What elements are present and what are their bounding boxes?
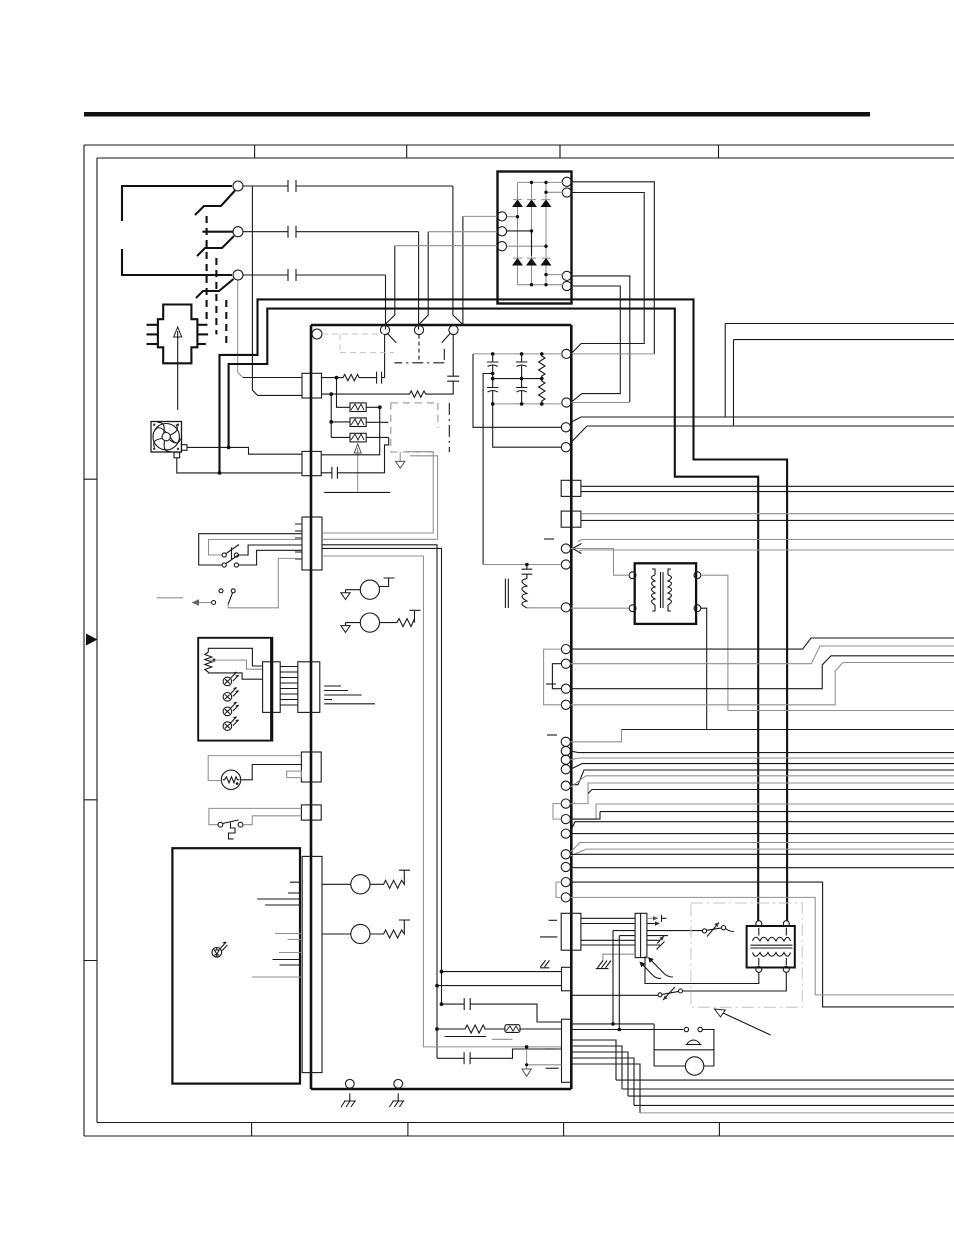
line y752 xyxy=(571,751,954,753)
bridge feed wire bottom xyxy=(395,245,498,247)
light dashed link xyxy=(322,334,394,353)
PCB pin grp1 a xyxy=(561,645,570,654)
T2 core xyxy=(751,945,793,948)
relay output pair to B2 xyxy=(322,452,438,540)
thermal switch feed xyxy=(647,931,702,936)
bridge diodes top row xyxy=(513,200,551,206)
fan wire 2 xyxy=(177,458,302,473)
EMI cap CY2a xyxy=(516,354,527,379)
EMI cap bank bottom rail xyxy=(493,403,562,405)
harness connector C1 xyxy=(561,913,581,950)
line y811 xyxy=(571,812,954,820)
plug pin R1 xyxy=(197,324,207,326)
plug actuation arrow xyxy=(177,331,179,410)
chassis ground GND1 xyxy=(399,452,401,461)
door switch plunger xyxy=(229,823,236,839)
C1 stub a xyxy=(549,919,557,921)
sense line down xyxy=(578,550,954,552)
bridge diode column rails xyxy=(507,182,564,284)
relay unit dash-dot edge xyxy=(448,403,450,452)
ground comb xyxy=(324,686,361,700)
door switch wire top xyxy=(209,808,302,824)
switch blade S3 xyxy=(196,279,234,298)
main PCB board outline xyxy=(311,325,571,1089)
capacitor CX3 on line E xyxy=(243,269,386,281)
TB1 pair lines xyxy=(581,486,954,491)
line y882 to 1006 xyxy=(571,882,954,1007)
line y646 xyxy=(571,646,954,664)
X-capacitor C2 xyxy=(447,335,459,382)
title rule xyxy=(84,112,870,117)
annotation arrow xyxy=(722,1013,771,1036)
selector switch loop inner xyxy=(209,540,302,556)
R3 feed xyxy=(322,883,351,885)
line y867 xyxy=(571,866,954,869)
PTC resistor RT3 xyxy=(350,433,366,442)
note line 1 xyxy=(445,1036,487,1038)
pole1 return xyxy=(238,545,301,555)
ground triangle G3 xyxy=(522,1069,531,1076)
line y638 xyxy=(571,638,954,649)
switch pole2 contacts xyxy=(222,563,226,567)
lamp4 xyxy=(223,717,239,731)
mid-rail tap to L pin xyxy=(483,374,493,565)
R3 resistor and T-bar xyxy=(370,870,410,888)
bridge rectifier block outline xyxy=(498,172,572,304)
ground symbol hatch 1 xyxy=(341,1093,356,1107)
line y758 xyxy=(571,758,954,760)
switch linkage dashed rod 3 xyxy=(225,300,227,344)
thermal protector TP1 xyxy=(679,989,683,993)
M2 ground symbol xyxy=(341,626,350,633)
pole2 return xyxy=(238,550,301,565)
fan terminal 1 xyxy=(181,445,187,451)
TS1 tail xyxy=(726,929,735,932)
plug pin R3 xyxy=(197,343,205,345)
PTC resistor RT2 xyxy=(350,418,366,427)
T2 secondary return A xyxy=(645,956,759,983)
R4 resistor and T-bar xyxy=(370,920,410,938)
pin label stub c xyxy=(547,734,557,736)
pump loop xyxy=(654,1050,714,1066)
line y662 xyxy=(571,663,954,705)
harness connector C2 xyxy=(635,913,647,957)
inside bracket gray xyxy=(544,649,562,705)
AC terminal N xyxy=(233,227,243,237)
relay actuation arrow xyxy=(357,448,359,491)
thermal fuse F1 xyxy=(505,1025,520,1033)
line y804 xyxy=(571,804,954,819)
bridge feed wire top xyxy=(463,215,498,217)
heater wire top xyxy=(208,756,301,781)
M1 ground lead xyxy=(346,590,361,593)
M2 ground lead xyxy=(346,623,361,626)
M1 ground symbol xyxy=(341,593,350,600)
capacitor CX2 on line N xyxy=(243,226,419,238)
pin 803 xyxy=(561,799,570,808)
fan blades xyxy=(154,422,181,451)
PCB pin L1 xyxy=(561,423,570,432)
bridge output pin -1 xyxy=(562,271,571,280)
coil return wire xyxy=(324,491,390,493)
lamp3 xyxy=(223,702,239,716)
display unit box xyxy=(172,848,300,1083)
T1 right bottom wire xyxy=(701,608,707,729)
PCB pin sense xyxy=(561,544,570,553)
square terminal TB2 xyxy=(561,511,581,527)
T1 left bottom wire xyxy=(571,607,630,609)
door switch blade xyxy=(223,820,239,824)
pole blades xyxy=(226,545,239,564)
pin2 contact dash xyxy=(418,335,420,363)
frame zone ticks left xyxy=(84,479,97,960)
ground stem G3 xyxy=(526,1047,528,1069)
resonant choke L1 xyxy=(505,579,527,608)
plug-in arrows xyxy=(641,959,665,976)
bundle line 2 xyxy=(622,1088,954,1090)
mode switch arrow xyxy=(195,602,211,604)
PCB pin T1 return xyxy=(561,603,570,612)
bridge output pin +1 xyxy=(562,177,571,186)
connector A1 xyxy=(302,373,322,398)
line y783 xyxy=(571,783,954,804)
line y763 xyxy=(571,764,954,770)
connector A2 xyxy=(302,451,321,475)
mode switch blade xyxy=(228,593,232,604)
TB2 pair lines xyxy=(581,513,954,515)
T1 right top wire to line 710 xyxy=(701,575,954,710)
pin3 contact diagonal xyxy=(442,333,451,343)
fan wire 1 xyxy=(187,447,302,454)
C2 arrow out 2 xyxy=(647,923,657,925)
frame center arrow left xyxy=(86,634,98,646)
ground symbol hatch 2 xyxy=(389,1093,404,1107)
line y775 xyxy=(571,776,954,787)
mode switch output xyxy=(228,558,301,607)
pin label stub b xyxy=(546,683,556,685)
thermostat loop xyxy=(654,1024,714,1050)
transformer T2 box xyxy=(747,926,795,968)
EMI cap CY1b xyxy=(487,379,498,404)
EMI cap CY2b xyxy=(516,379,527,404)
bridge output pin -2 xyxy=(562,281,571,290)
C2 ground wire xyxy=(603,954,635,961)
pin 867 xyxy=(561,862,570,871)
connector B3R xyxy=(298,662,320,713)
bottom-left ground pin 1 xyxy=(345,1079,354,1088)
pin 897 xyxy=(561,893,570,902)
T2 primary coil xyxy=(753,937,791,941)
PTC outputs xyxy=(366,407,389,437)
AC E drop wire to connector A1 xyxy=(238,281,243,378)
PTC feed vertical from R1 node xyxy=(337,378,351,408)
bridge diode bars top xyxy=(513,199,551,201)
line y729 xyxy=(571,730,622,742)
bottom-left ground pin 2 xyxy=(394,1079,403,1088)
unit dash-dot outline xyxy=(691,903,802,1007)
TP1 out xyxy=(572,994,659,996)
bridge input pin 2 xyxy=(497,227,506,236)
bundle line 1 xyxy=(616,1079,954,1081)
bottom feed connector CN8 xyxy=(562,967,571,991)
display wire stubs xyxy=(257,882,301,965)
T2 secondary return B xyxy=(683,972,786,991)
R4 feed xyxy=(322,933,351,935)
dot R1 node xyxy=(335,376,339,380)
switch linkage dashed rod 1 xyxy=(206,216,208,325)
square terminal TB1 xyxy=(561,480,581,496)
inside bracket pins 882-897 xyxy=(556,882,561,897)
damper resistor R2 wire xyxy=(322,381,454,397)
board pin P0 xyxy=(312,329,322,339)
pot wiper dot xyxy=(212,659,215,662)
inside bracket black xyxy=(552,664,561,689)
inductor feed pin xyxy=(561,560,570,569)
thermostat bulb xyxy=(686,1040,702,1044)
PCB pin N1 xyxy=(561,443,570,452)
T1 pin RT xyxy=(694,572,701,579)
chassis ground G5 xyxy=(540,960,550,968)
pin 882 xyxy=(561,878,570,887)
B2 gray tap down xyxy=(322,556,562,1047)
pot bottom wire xyxy=(208,672,262,679)
bridge - wire 2 xyxy=(571,286,620,402)
dots bottom feeds xyxy=(435,970,443,1031)
wire E to pin1 xyxy=(385,246,395,330)
bundle line 3 xyxy=(628,1095,954,1097)
resonant cap xyxy=(522,565,533,579)
C1 stub b xyxy=(540,936,557,938)
pot top wire xyxy=(208,648,262,666)
pin 819 xyxy=(561,815,570,824)
wire + into pin xyxy=(571,353,654,355)
relay dashed outline xyxy=(391,403,438,452)
EMI bleeder resistor Ra xyxy=(539,354,545,379)
pin label stub a xyxy=(544,538,554,540)
B2 black pair down xyxy=(322,545,442,1059)
board pin P1 xyxy=(380,325,389,334)
bridge + wire 2 xyxy=(571,193,644,354)
dot R2 node xyxy=(329,392,333,396)
bridge feed wire mid xyxy=(428,231,497,233)
pump motor PM xyxy=(685,1057,703,1075)
slash hook xyxy=(653,974,673,979)
heater filament xyxy=(223,777,240,783)
thick wire W1 to transformer xyxy=(220,299,788,921)
pin 751 xyxy=(561,746,570,755)
bottom cap C12 xyxy=(437,1049,562,1064)
C1-C2 ribbon xyxy=(581,918,635,945)
T1 primary coil xyxy=(652,569,672,611)
EMI mid rail xyxy=(493,378,542,380)
wire N to pin2 xyxy=(419,232,429,330)
line y770 xyxy=(571,770,954,786)
drawing frame outer border xyxy=(84,145,954,1136)
T2 pin TL xyxy=(756,921,762,927)
C2 arrow out 1 xyxy=(647,917,658,919)
EMI bottom rail drop to pin xyxy=(493,404,562,447)
plug pin L3 xyxy=(147,343,158,345)
PCB pin grp1 b xyxy=(561,659,570,668)
bundle line 4 xyxy=(634,1104,954,1106)
frame zone ticks top xyxy=(255,145,719,158)
plug pin R2 xyxy=(197,333,208,335)
pin 854 xyxy=(561,850,570,859)
junction dots fan wires xyxy=(227,446,231,450)
pin jog line y426 xyxy=(571,426,954,442)
heater lamp xyxy=(221,770,240,789)
potentiometer zigzag xyxy=(205,652,212,672)
line y789 xyxy=(588,790,954,794)
line y897 to 994 xyxy=(571,897,954,995)
note line 3 xyxy=(546,1067,559,1069)
mode switch pivot xyxy=(219,589,223,593)
door switch return xyxy=(243,816,302,825)
interlock dash-dot outline xyxy=(394,349,444,363)
pin jog line y417 xyxy=(571,417,954,422)
switch blade S2 xyxy=(197,236,234,256)
AC L branch wire to connector A1 xyxy=(252,186,302,395)
inductor feed wire xyxy=(483,564,561,566)
bundle line 5 xyxy=(640,1112,954,1114)
pin 741 xyxy=(561,737,570,746)
plug pin L2 xyxy=(147,333,158,335)
snubber cap C11 xyxy=(442,998,562,1022)
long line DC bus A xyxy=(725,324,954,418)
choke bottom wire xyxy=(527,607,561,609)
pin 769 xyxy=(561,765,570,774)
drawing frame inner border xyxy=(97,158,954,1123)
X-cap damper resistor R1 xyxy=(322,374,377,380)
PCB pin DC+ xyxy=(562,349,571,358)
T2 secondary coil xyxy=(753,953,791,957)
LED indicator xyxy=(212,948,222,958)
PTC feed vertical from R2 node xyxy=(331,394,350,437)
mode switch lead line xyxy=(157,597,183,599)
door switch contacts xyxy=(218,822,223,827)
AC terminal E xyxy=(233,270,243,280)
connector B2 xyxy=(302,517,322,570)
bridge + wire 1 xyxy=(571,182,654,354)
bridge input pin 3 xyxy=(497,242,506,251)
AC inlet bracket xyxy=(122,186,233,275)
door switch connector B5 xyxy=(301,805,321,820)
B2 pin stubs xyxy=(295,524,302,559)
line y833 xyxy=(571,833,954,835)
lamp unit box xyxy=(198,638,272,741)
PTC resistor RT1 xyxy=(350,403,366,412)
EMI cap bank top rail xyxy=(473,353,562,355)
F1 out xyxy=(520,1028,562,1030)
switch linkage dashed rod 2 xyxy=(215,258,217,334)
relay coil wire xyxy=(322,437,389,478)
connector B3L xyxy=(263,662,281,713)
bridge input pin 1 xyxy=(497,212,506,221)
pin 833 xyxy=(561,829,570,838)
selector switch loop outer xyxy=(199,534,302,565)
board pin P2 xyxy=(414,325,423,334)
fan terminal 2 xyxy=(174,452,180,458)
relay plug body xyxy=(158,305,198,364)
lamp1 xyxy=(223,672,239,686)
motor M1 xyxy=(360,580,379,599)
B4 key tab xyxy=(287,771,302,778)
bottom connector CN9 xyxy=(562,1019,571,1082)
load R3 lamp xyxy=(351,875,370,894)
line y842 xyxy=(571,843,954,853)
pin 785 xyxy=(561,781,570,790)
EMI junction dots xyxy=(491,352,544,406)
bridge junction dots xyxy=(516,181,548,287)
plug pin L1 xyxy=(147,324,158,326)
EMI bleeder resistor Rb xyxy=(539,379,545,404)
sense line up xyxy=(578,540,954,542)
door lock wire pair xyxy=(572,1024,684,1030)
switch pole1 contacts xyxy=(222,553,226,557)
sense arrowhead xyxy=(573,544,582,554)
fan FM1 body xyxy=(151,422,182,453)
CN8 wire a xyxy=(442,971,562,973)
lamp2 xyxy=(223,688,239,702)
pot wiper wire xyxy=(210,660,263,669)
line y821 xyxy=(571,822,954,831)
C2 arrow out 3 xyxy=(647,936,664,944)
CN8 wire b xyxy=(437,985,562,987)
heater wire return xyxy=(241,765,302,780)
pin label stub d xyxy=(545,1048,555,1050)
bridge output pin +2 xyxy=(562,188,571,197)
chassis ground G4 xyxy=(596,961,611,969)
frame zone ticks bottom xyxy=(252,1123,720,1137)
pin 759 xyxy=(561,755,570,764)
fan supply riser xyxy=(322,407,380,455)
main harness connector CN10 xyxy=(302,856,322,1072)
load R4 lamp xyxy=(351,924,370,943)
lamp unit thick edge xyxy=(270,638,273,741)
line y849 xyxy=(571,849,954,856)
thick wire W2 to transformer xyxy=(229,309,759,921)
T2 pin BL xyxy=(756,966,762,972)
T1 pin LB xyxy=(629,605,636,612)
switch blade S1 xyxy=(195,191,235,216)
PCB pin DC- xyxy=(562,398,571,407)
PCB pin grp1 d xyxy=(561,700,570,709)
T1 pin RB xyxy=(694,605,701,612)
inside bracket pins 803-819 xyxy=(553,804,561,820)
T1 pin LT xyxy=(629,572,636,579)
wire - into pin xyxy=(571,402,629,404)
board pin P3 xyxy=(449,325,458,334)
AC terminal L xyxy=(233,181,243,191)
M2 output resistor xyxy=(380,610,421,626)
bottom bundle staircase xyxy=(572,1040,641,1113)
M1 output T-bar xyxy=(380,578,395,587)
pin1 contact diagonal xyxy=(387,333,396,343)
bridge diode bars bottom xyxy=(513,257,551,259)
comb long line xyxy=(324,703,375,705)
B3 ribbon wires xyxy=(280,667,298,706)
fan screw dots xyxy=(153,424,179,450)
bridge mid tap black xyxy=(507,231,532,256)
gray stub CN9 xyxy=(527,1064,562,1066)
thermostat contacts xyxy=(684,1027,688,1031)
T2 pin TR xyxy=(783,921,789,927)
T2 pin BR xyxy=(783,966,789,972)
bridge diodes bottom row xyxy=(513,259,551,265)
PCB pin grp1 c xyxy=(561,684,570,693)
T1 left top wire xyxy=(571,549,630,576)
thermal switch TS1 xyxy=(702,929,706,933)
